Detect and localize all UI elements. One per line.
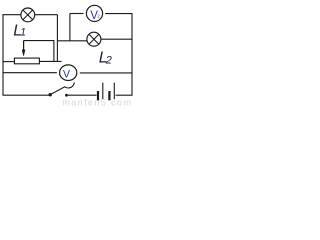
lamp L2 (87, 32, 101, 46)
label L1 (13, 22, 26, 39)
lamp L1 (21, 8, 35, 22)
wire rheostat left (frame to box) (3, 61, 14, 63)
wire voltmeter V2 left stub (70, 13, 84, 15)
wire bottom left (frame to switch) (3, 94, 50, 96)
battery cell2 short plate (108, 91, 110, 100)
switch left contact dot (49, 93, 52, 96)
svg-text:2: 2 (105, 55, 112, 67)
wire bottom right (battery to frame) (116, 94, 132, 96)
wire voltmeter V1 right (circle to frame) (80, 72, 132, 74)
voltmeter V2 (top) (86, 5, 102, 22)
label L2 (99, 50, 112, 67)
wire lamp L2 right (to frame) (101, 38, 132, 40)
wire right frame vertical (131, 14, 133, 96)
voltmeter V1 (middle) (60, 65, 77, 81)
battery (98, 83, 114, 101)
switch blade (50, 82, 74, 94)
battery cell2 long plate (113, 83, 115, 100)
wire bottom middle (switch to battery) (68, 94, 97, 96)
wire top (lamp L1 to corner) (35, 14, 58, 16)
rheostat slider arrow (22, 41, 25, 56)
wire L2 horizontal (node to lamp L2) (57, 40, 87, 42)
wire rheostat right (box to end) (39, 60, 61, 62)
svg-text:manfen5.com: manfen5.com (62, 97, 132, 106)
svg-text:1: 1 (20, 27, 26, 39)
battery cell1 long plate (102, 83, 104, 100)
battery cell1 short plate (97, 91, 99, 100)
switch right contact dot (65, 94, 68, 97)
resistor box (rheostat) (14, 58, 39, 64)
wire slider bracket (24, 41, 54, 62)
wire vertical voltmeter V2 left drop (69, 14, 71, 41)
wire vertical from L1 corner down to node (56, 15, 58, 62)
wire left frame vertical (2, 15, 4, 96)
wire voltmeter V1 left (frame to circle) (3, 72, 57, 74)
wire voltmeter V2 right (to frame) (105, 13, 132, 15)
svg-text:V: V (63, 69, 71, 81)
switch (49, 82, 75, 96)
wire top left (frame to lamp L1) (3, 14, 22, 16)
